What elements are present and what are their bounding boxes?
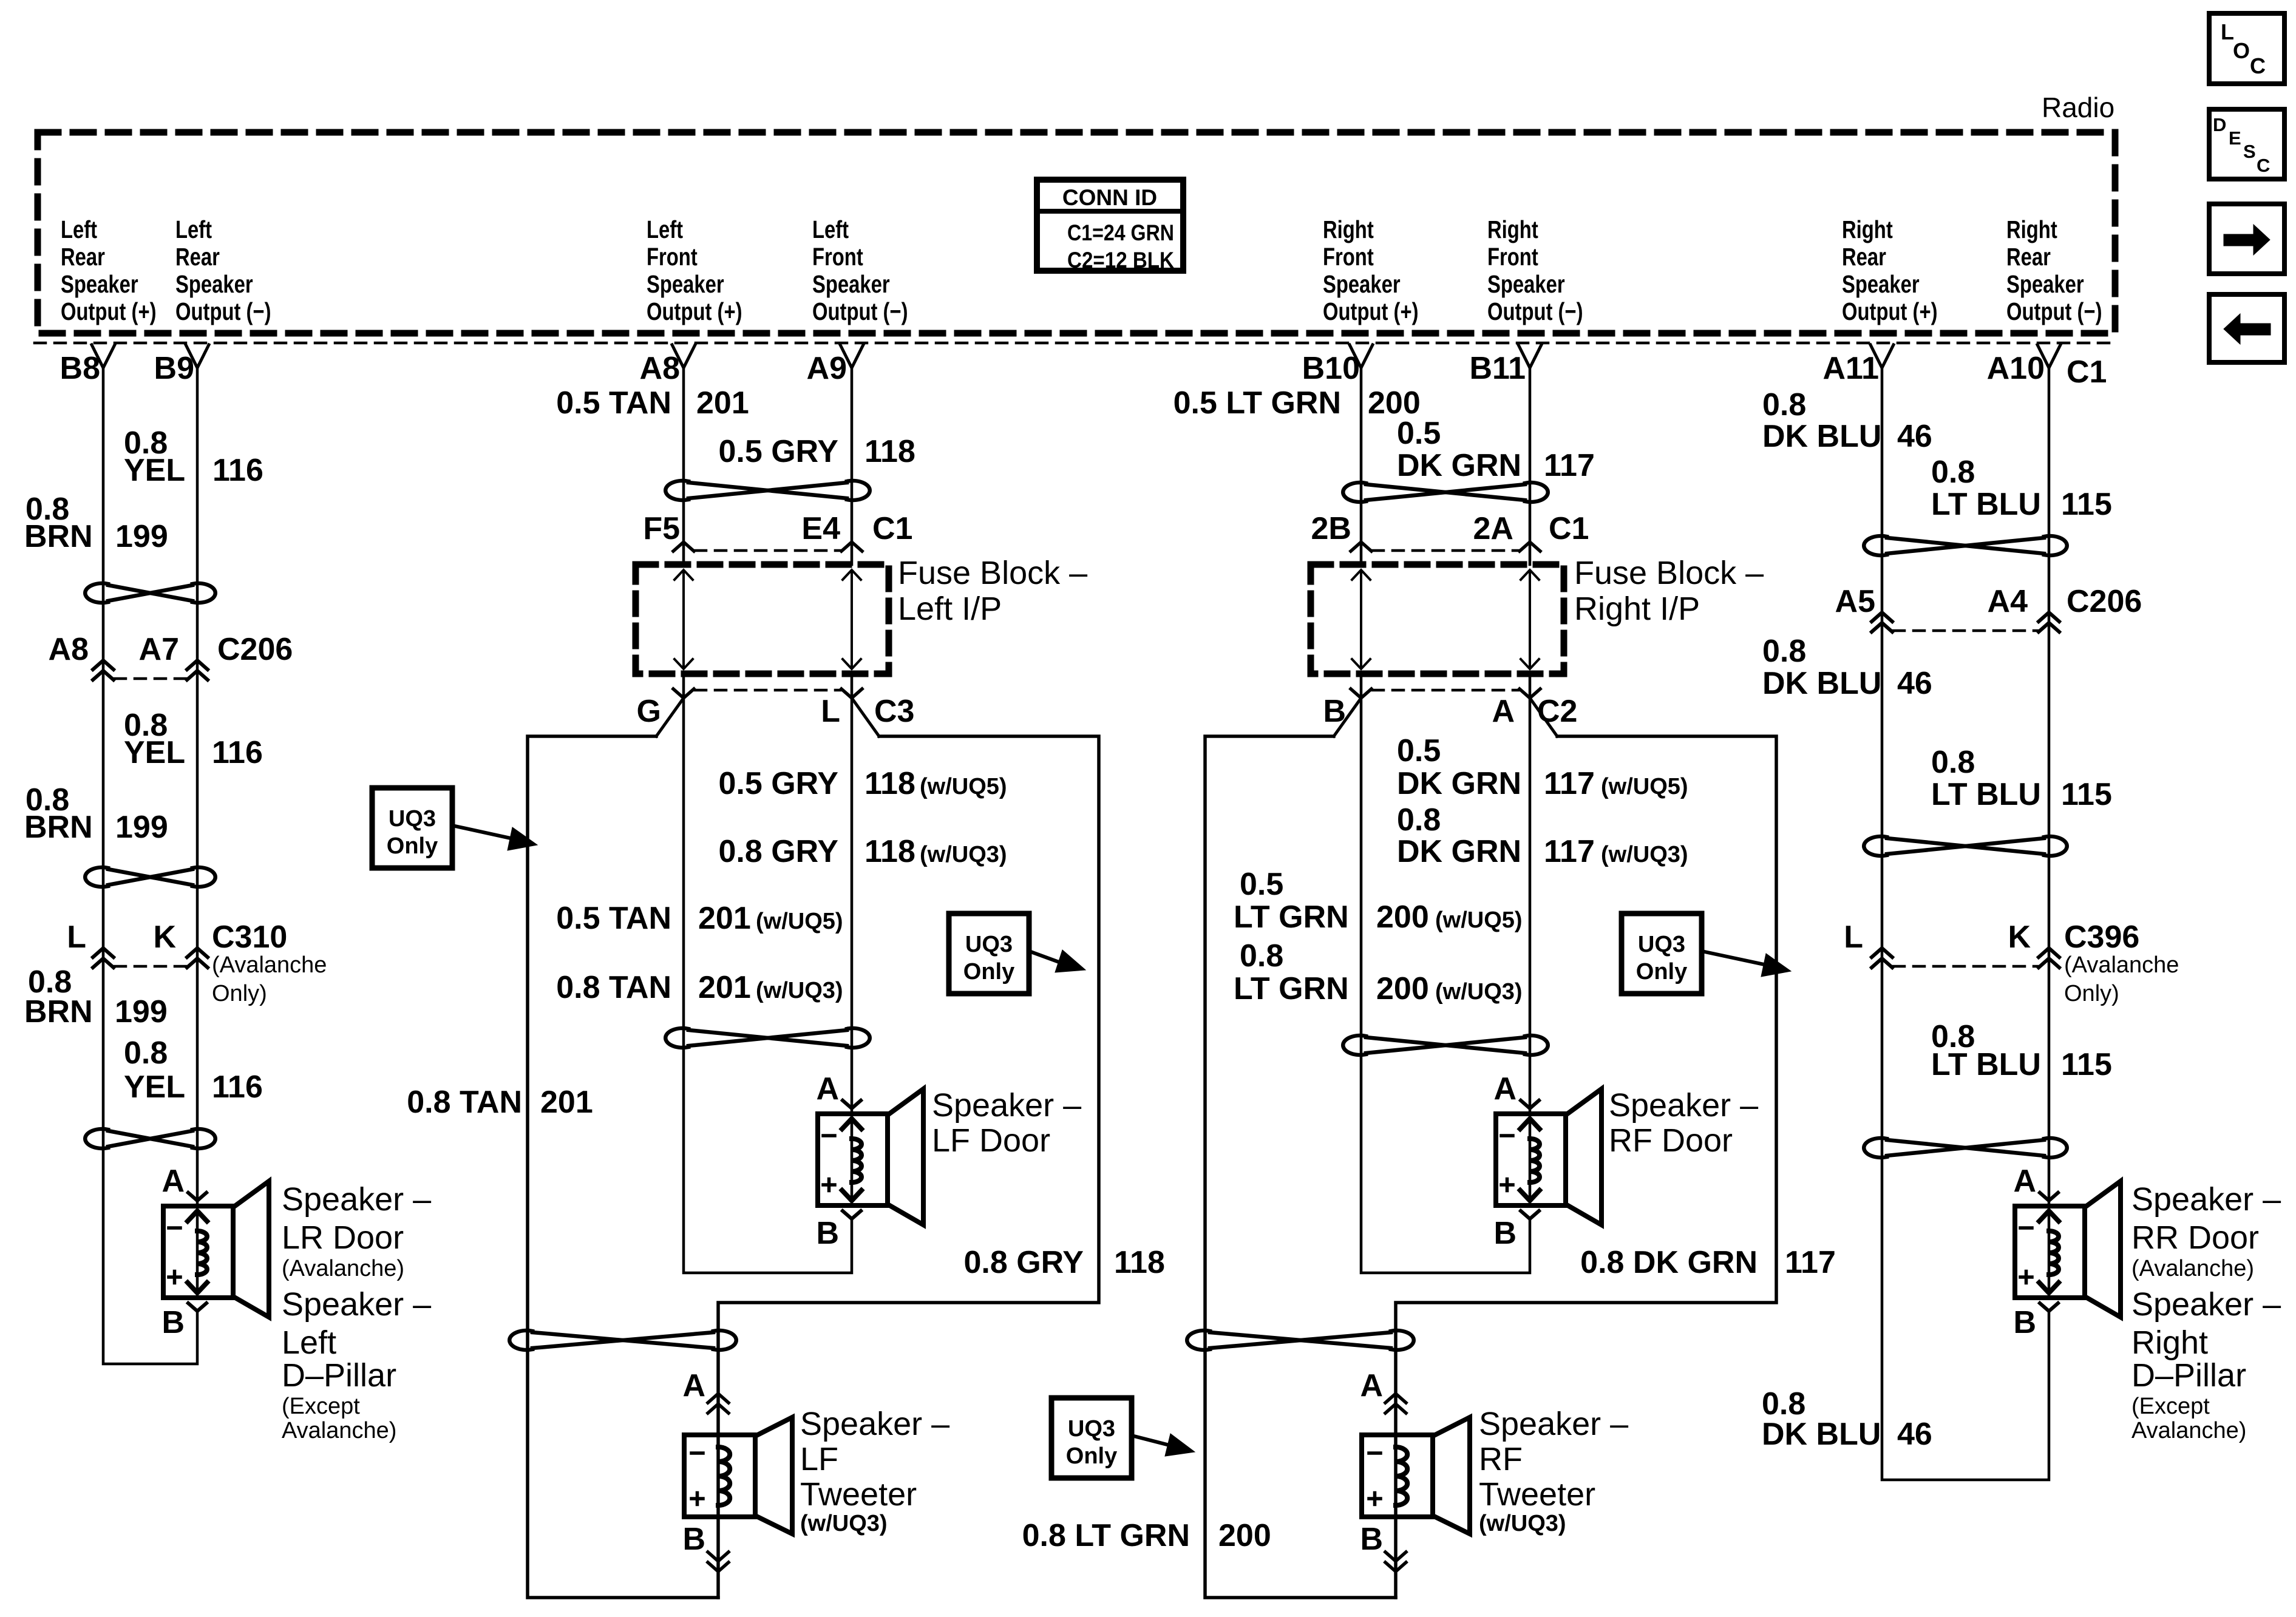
svg-text:A: A — [1360, 1368, 1383, 1403]
svg-text:LR Door: LR Door — [282, 1219, 404, 1256]
svg-text:(w/UQ3): (w/UQ3) — [1601, 842, 1688, 867]
svg-text:(Avalanche): (Avalanche) — [2131, 1256, 2254, 1281]
svg-text:0.8: 0.8 — [1397, 802, 1441, 838]
svg-text:Right: Right — [2006, 215, 2057, 243]
svg-text:(w/UQ5): (w/UQ5) — [1601, 774, 1688, 799]
svg-text:C2: C2 — [1537, 694, 1577, 729]
svg-text:YEL: YEL — [124, 1070, 185, 1105]
svg-text:Fuse Block –: Fuse Block – — [898, 555, 1087, 591]
svg-text:L: L — [2221, 19, 2234, 44]
svg-text:(w/UQ3): (w/UQ3) — [800, 1511, 888, 1536]
svg-text:Left: Left — [175, 215, 212, 243]
twisted pair RF top — [1343, 483, 1366, 502]
svg-text:2B: 2B — [1311, 511, 1351, 546]
svg-text:E4: E4 — [801, 511, 840, 546]
svg-text:RF: RF — [1479, 1441, 1523, 1477]
wire A dk green branch diagonal — [1530, 698, 1557, 736]
svg-text:B: B — [1360, 1522, 1383, 1557]
svg-text:201: 201 — [698, 901, 751, 936]
svg-text:118: 118 — [864, 834, 915, 869]
svg-text:46: 46 — [1897, 666, 1932, 701]
svg-text:115: 115 — [2061, 1047, 2112, 1082]
svg-text:A: A — [682, 1368, 705, 1403]
svg-text:DK GRN: DK GRN — [1397, 766, 1521, 801]
svg-text:B8: B8 — [60, 351, 100, 386]
svg-text:(w/UQ5): (w/UQ5) — [1435, 907, 1523, 933]
svg-text:C: C — [2257, 155, 2270, 176]
fuse block - left I/P dashed box — [636, 564, 889, 674]
speaker RF door — [1521, 1100, 1539, 1108]
UQ3 only callout box 2 — [949, 914, 1029, 994]
svg-text:Speaker –: Speaker – — [282, 1286, 431, 1323]
svg-text:CONN ID: CONN ID — [1062, 185, 1157, 210]
svg-text:Output (−): Output (−) — [812, 297, 908, 325]
svg-text:Only): Only) — [212, 981, 267, 1006]
svg-text:Speaker: Speaker — [1842, 269, 1920, 297]
svg-text:117: 117 — [1785, 1245, 1836, 1280]
svg-text:Only: Only — [387, 833, 438, 859]
svg-text:0.8 GRY: 0.8 GRY — [719, 834, 839, 869]
svg-text:A: A — [2013, 1164, 2036, 1199]
radio output label at x=3034 — [1842, 215, 1938, 325]
svg-text:DK GRN: DK GRN — [1397, 834, 1521, 869]
svg-text:0.5: 0.5 — [1397, 416, 1441, 451]
svg-text:Speaker: Speaker — [812, 269, 890, 297]
wire B11 continues to RF door A — [1529, 674, 1532, 1114]
svg-text:Rear: Rear — [1842, 242, 1886, 270]
svg-text:E: E — [2229, 127, 2241, 149]
svg-text:0.8 TAN: 0.8 TAN — [407, 1085, 522, 1120]
twisted pair RF door — [1343, 1036, 1366, 1055]
svg-text:G: G — [637, 694, 661, 729]
svg-text:Fuse Block –: Fuse Block – — [1574, 555, 1764, 591]
svg-text:(Avalanche: (Avalanche — [212, 952, 327, 978]
svg-text:0.8: 0.8 — [1931, 745, 1975, 780]
svg-text:0.8 DK GRN: 0.8 DK GRN — [1580, 1245, 1758, 1280]
svg-text:B9: B9 — [154, 351, 194, 386]
UQ3 only callout box 4 — [1622, 914, 1702, 994]
svg-text:46: 46 — [1897, 419, 1932, 454]
svg-text:Left: Left — [61, 215, 97, 243]
svg-text:LT BLU: LT BLU — [1931, 777, 2041, 812]
svg-text:Speaker –: Speaker – — [800, 1406, 949, 1442]
svg-text:Left: Left — [282, 1324, 336, 1361]
fuse block left internal circuit F5-G — [682, 571, 685, 668]
fuse block - right I/P dashed box — [1311, 564, 1564, 674]
svg-text:C310: C310 — [212, 920, 287, 955]
svg-text:B: B — [161, 1305, 185, 1340]
svg-text:L: L — [821, 694, 840, 729]
svg-text:0.5 LT GRN: 0.5 LT GRN — [1173, 385, 1341, 421]
svg-text:Rear: Rear — [61, 242, 105, 270]
svg-text:0.5: 0.5 — [1240, 867, 1283, 902]
svg-text:Speaker: Speaker — [1487, 269, 1565, 297]
wire A9 continues to LF door A — [851, 674, 854, 1114]
svg-text:(Avalanche): (Avalanche) — [282, 1256, 404, 1281]
svg-text:115: 115 — [2061, 487, 2112, 522]
svg-text:O: O — [2233, 38, 2250, 63]
twisted pair RR top — [1864, 536, 1887, 555]
svg-text:0.8: 0.8 — [1931, 455, 1975, 490]
speaker LF tweeter — [708, 1394, 729, 1403]
svg-text:C206: C206 — [217, 632, 293, 667]
svg-text:K: K — [153, 920, 176, 955]
svg-text:(w/UQ3): (w/UQ3) — [920, 842, 1007, 867]
svg-text:Speaker –: Speaker – — [2131, 1181, 2281, 1218]
svg-text:A8: A8 — [640, 351, 680, 386]
svg-text:A10: A10 — [1987, 351, 2045, 386]
svg-text:46: 46 — [1897, 1417, 1932, 1452]
svg-text:A4: A4 — [1988, 584, 2028, 619]
svg-text:Speaker: Speaker — [61, 269, 138, 297]
svg-text:RF Door: RF Door — [1609, 1122, 1733, 1159]
svg-text:0.5 GRY: 0.5 GRY — [719, 766, 839, 801]
svg-text:0.8: 0.8 — [1762, 634, 1806, 669]
svg-text:0.5 TAN: 0.5 TAN — [556, 901, 671, 936]
wire A9 gray 118 (left front -) — [851, 368, 854, 564]
svg-text:Speaker –: Speaker – — [1479, 1406, 1628, 1442]
svg-text:Right: Right — [1842, 215, 1893, 243]
wire 0.8 DK GRN 117 branch (right side of right box) — [1396, 736, 1776, 1598]
svg-text:A: A — [1492, 694, 1515, 729]
svg-text:Front: Front — [812, 242, 863, 270]
svg-text:UQ3: UQ3 — [965, 932, 1013, 957]
svg-text:201: 201 — [696, 385, 749, 421]
svg-text:Output (+): Output (+) — [1323, 297, 1419, 325]
wire A8 continues to LF door B — [684, 674, 852, 1273]
wire A10 lt blue 115 (right rear -) — [2048, 368, 2051, 1206]
svg-text:DK BLU: DK BLU — [1762, 1417, 1881, 1452]
wire A8 tan 201 (left front +) — [682, 368, 685, 564]
wire 0.8 TAN 201 loop (left box outline) — [528, 736, 718, 1598]
svg-text:Speaker –: Speaker – — [2131, 1286, 2281, 1323]
svg-text:Right: Right — [1323, 215, 1374, 243]
svg-text:A: A — [1493, 1071, 1517, 1107]
svg-text:201: 201 — [540, 1085, 593, 1120]
svg-text:Speaker: Speaker — [1323, 269, 1401, 297]
fuse block right lower pins B A — [1373, 689, 1518, 692]
svg-text:B: B — [816, 1216, 839, 1251]
svg-text:B: B — [682, 1522, 705, 1557]
speaker LF door — [843, 1100, 861, 1108]
radio output label at x=1065 — [647, 215, 742, 325]
svg-text:C3: C3 — [874, 694, 914, 729]
svg-text:A11: A11 — [1822, 351, 1879, 386]
svg-text:118: 118 — [864, 434, 915, 469]
svg-text:Left: Left — [812, 215, 849, 243]
svg-text:(w/UQ3): (w/UQ3) — [1479, 1511, 1566, 1536]
svg-text:(Except: (Except — [2131, 1394, 2210, 1419]
svg-text:0.8 LT GRN: 0.8 LT GRN — [1022, 1518, 1190, 1553]
icon button next page (right arrow) — [2209, 204, 2284, 274]
svg-text:(Except: (Except — [282, 1394, 360, 1419]
twisted pair LR mid — [85, 867, 108, 887]
wire B10 lt green 200 (right front +) — [1360, 368, 1363, 564]
svg-text:B10: B10 — [1302, 351, 1360, 386]
svg-text:L: L — [67, 920, 86, 955]
svg-text:200: 200 — [1376, 971, 1429, 1006]
svg-text:C: C — [2250, 53, 2266, 78]
svg-text:Output (+): Output (+) — [61, 297, 157, 325]
icon button previous page (left arrow) — [2209, 294, 2284, 362]
svg-text:Rear: Rear — [2006, 242, 2051, 270]
svg-text:Right I/P: Right I/P — [1574, 591, 1700, 627]
svg-text:LF Door: LF Door — [932, 1122, 1050, 1159]
radio output label at x=1338 — [812, 215, 908, 325]
svg-text:UQ3: UQ3 — [1068, 1416, 1115, 1442]
svg-text:Output (−): Output (−) — [1487, 297, 1583, 325]
svg-text:BRN: BRN — [24, 810, 93, 845]
svg-text:C1: C1 — [2067, 354, 2107, 390]
svg-text:199: 199 — [115, 519, 168, 554]
svg-text:Only: Only — [963, 959, 1014, 985]
twisted pair RR mid — [1864, 836, 1887, 856]
svg-text:199: 199 — [115, 810, 168, 845]
svg-text:C1: C1 — [872, 511, 912, 546]
radio output label at x=289 — [175, 215, 271, 325]
svg-text:116: 116 — [212, 1070, 263, 1105]
wire L gray branch diagonal — [852, 698, 879, 736]
svg-text:2A: 2A — [1473, 511, 1513, 546]
svg-text:(w/UQ5): (w/UQ5) — [920, 774, 1007, 799]
svg-text:A7: A7 — [139, 632, 179, 667]
svg-text:0.5: 0.5 — [1397, 733, 1441, 768]
svg-text:A: A — [816, 1071, 839, 1107]
svg-text:117: 117 — [1544, 448, 1595, 483]
wire 0.8 LT GRN 200 loop (right box outline) — [1205, 736, 1396, 1598]
svg-text:A: A — [161, 1164, 185, 1199]
UQ3 only callout box 3 (bottom) — [1051, 1398, 1132, 1478]
svg-text:116: 116 — [212, 453, 263, 488]
svg-text:C396: C396 — [2064, 920, 2139, 955]
svg-text:B: B — [1493, 1216, 1517, 1251]
wire G tan branch diagonal — [656, 698, 684, 736]
svg-text:LF: LF — [800, 1441, 838, 1477]
svg-text:C1: C1 — [1549, 511, 1589, 546]
svg-text:(w/UQ3): (w/UQ3) — [756, 978, 843, 1003]
svg-text:Left: Left — [647, 215, 683, 243]
svg-text:A8: A8 — [49, 632, 89, 667]
twisted pair LF tweeter — [509, 1331, 532, 1350]
radio output label at x=100 — [61, 215, 157, 325]
radio module dashed outline — [38, 132, 2115, 333]
svg-text:0.8 GRY: 0.8 GRY — [964, 1245, 1084, 1280]
svg-text:Only: Only — [1636, 959, 1687, 985]
svg-text:C206: C206 — [2067, 584, 2142, 619]
svg-text:Only: Only — [1066, 1443, 1117, 1469]
svg-text:B: B — [2013, 1305, 2036, 1340]
svg-text:Output (−): Output (−) — [2006, 297, 2102, 325]
svg-text:Only): Only) — [2064, 981, 2119, 1006]
svg-text:117: 117 — [1544, 766, 1595, 801]
svg-text:UQ3: UQ3 — [389, 806, 436, 832]
twisted pair RF tweeter — [1187, 1331, 1210, 1350]
speaker LR door / left D-pillar — [188, 1193, 206, 1201]
wire 0.8 GRY 118 branch (right side of left box) — [718, 736, 1099, 1598]
svg-text:200: 200 — [1218, 1518, 1271, 1553]
svg-text:0.5 GRY: 0.5 GRY — [719, 434, 839, 469]
svg-text:Front: Front — [1323, 242, 1374, 270]
wire B8 brown 199 (left rear +) — [103, 368, 197, 1364]
icon button DESC — [2209, 109, 2284, 179]
speaker RR door / right D-pillar — [2040, 1193, 2058, 1201]
UQ3 only callout box 1 — [372, 788, 452, 868]
svg-text:L: L — [1844, 920, 1863, 955]
wire A11 dk blue 46 (right rear +) — [1882, 368, 2049, 1480]
svg-text:Speaker –: Speaker – — [932, 1087, 1081, 1124]
fuse block right internal circuit 2A-A — [1529, 571, 1531, 668]
svg-text:0.8: 0.8 — [1762, 387, 1806, 422]
svg-text:Tweeter: Tweeter — [1479, 1476, 1595, 1513]
svg-text:Output (+): Output (+) — [1842, 297, 1938, 325]
svg-text:C2=12 BLK: C2=12 BLK — [1067, 248, 1174, 273]
radio output label at x=2179 — [1323, 215, 1419, 325]
svg-text:DK BLU: DK BLU — [1762, 419, 1881, 454]
radio C1 connector dashed line — [35, 342, 2115, 345]
svg-text:Right: Right — [1487, 215, 1538, 243]
svg-text:0.8: 0.8 — [124, 1036, 168, 1071]
wire B11 dk green 117 (right front -) — [1529, 368, 1532, 564]
svg-text:Speaker: Speaker — [175, 269, 253, 297]
svg-text:Output (+): Output (+) — [647, 297, 742, 325]
wire B10 continues to RF door B — [1361, 674, 1530, 1273]
svg-text:118: 118 — [1114, 1245, 1165, 1280]
svg-text:BRN: BRN — [24, 519, 93, 554]
twisted pair LR top — [85, 583, 108, 603]
svg-text:118: 118 — [864, 766, 915, 801]
wire B9 yellow 116 (left rear -) — [196, 368, 199, 1206]
svg-text:Front: Front — [1487, 242, 1538, 270]
svg-text:YEL: YEL — [124, 735, 185, 770]
fuse block left lower pins G L — [695, 689, 840, 692]
svg-text:Left I/P: Left I/P — [898, 591, 1002, 627]
twisted pair LF top — [665, 481, 688, 500]
twisted pair RR bottom — [1864, 1138, 1887, 1158]
svg-text:(Avalanche: (Avalanche — [2064, 952, 2179, 978]
svg-text:DK GRN: DK GRN — [1397, 448, 1521, 483]
svg-text:A9: A9 — [807, 351, 847, 386]
svg-text:Avalanche): Avalanche) — [2131, 1418, 2246, 1443]
svg-text:D–Pillar: D–Pillar — [2131, 1357, 2246, 1394]
svg-text:Output (−): Output (−) — [175, 297, 271, 325]
svg-text:Speaker –: Speaker – — [282, 1181, 431, 1218]
svg-text:YEL: YEL — [124, 453, 185, 488]
svg-text:116: 116 — [212, 735, 263, 770]
svg-text:B11: B11 — [1469, 351, 1526, 386]
svg-text:UQ3: UQ3 — [1638, 932, 1685, 957]
svg-text:0.8: 0.8 — [1240, 938, 1283, 974]
svg-text:0.8 TAN: 0.8 TAN — [556, 970, 671, 1005]
svg-text:115: 115 — [2061, 777, 2112, 812]
svg-text:Rear: Rear — [175, 242, 220, 270]
svg-text:F5: F5 — [643, 511, 680, 546]
svg-text:D–Pillar: D–Pillar — [282, 1357, 396, 1394]
svg-text:LT GRN: LT GRN — [1234, 900, 1349, 935]
svg-text:Front: Front — [647, 242, 698, 270]
twisted pair LF door — [665, 1028, 688, 1048]
svg-text:S: S — [2243, 141, 2256, 162]
svg-text:BRN: BRN — [24, 994, 93, 1029]
radio output label at x=3305 — [2006, 215, 2102, 325]
svg-text:A5: A5 — [1835, 584, 1875, 619]
svg-text:LT BLU: LT BLU — [1931, 487, 2041, 522]
fuse block right internal circuit 2B-B — [1360, 571, 1362, 668]
twisted pair LR bottom — [85, 1129, 108, 1148]
icon button LOC — [2209, 13, 2284, 84]
fuse block left internal circuit E4-L — [851, 571, 853, 668]
svg-text:(w/UQ5): (w/UQ5) — [756, 909, 843, 934]
svg-text:117: 117 — [1544, 834, 1595, 869]
svg-text:Right: Right — [2131, 1324, 2208, 1361]
svg-text:K: K — [2008, 920, 2031, 955]
svg-text:C1=24 GRN: C1=24 GRN — [1067, 220, 1174, 245]
wire B lt green branch diagonal — [1334, 698, 1361, 736]
svg-text:D: D — [2213, 114, 2226, 135]
svg-text:Tweeter: Tweeter — [800, 1476, 917, 1513]
speaker RF tweeter — [1385, 1394, 1406, 1403]
svg-text:DK BLU: DK BLU — [1762, 666, 1881, 701]
svg-text:200: 200 — [1376, 900, 1429, 935]
svg-text:(w/UQ3): (w/UQ3) — [1435, 979, 1523, 1005]
svg-text:Avalanche): Avalanche) — [282, 1418, 396, 1443]
CONN ID table — [1037, 180, 1183, 271]
svg-text:199: 199 — [115, 994, 168, 1029]
svg-text:0.5 TAN: 0.5 TAN — [556, 385, 671, 421]
svg-text:Radio: Radio — [2042, 92, 2114, 123]
radio output label at x=2450 — [1487, 215, 1583, 325]
svg-text:RR Door: RR Door — [2131, 1219, 2259, 1256]
svg-text:Speaker: Speaker — [647, 269, 724, 297]
svg-text:201: 201 — [698, 970, 751, 1005]
svg-text:LT BLU: LT BLU — [1931, 1047, 2041, 1082]
svg-text:Speaker: Speaker — [2006, 269, 2084, 297]
svg-text:Speaker –: Speaker – — [1609, 1087, 1758, 1124]
svg-text:LT GRN: LT GRN — [1234, 971, 1349, 1006]
